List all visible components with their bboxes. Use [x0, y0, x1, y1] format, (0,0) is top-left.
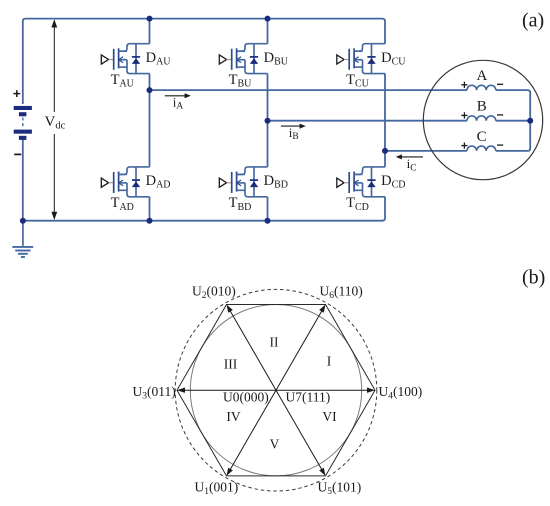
node phase A output	[147, 87, 153, 93]
svg-text:(a): (a)	[522, 10, 544, 32]
svg-text:U1(001): U1(001)	[195, 480, 239, 497]
node ground junction	[20, 218, 26, 224]
node top bus leg B	[265, 16, 271, 22]
label minus A	[497, 83, 503, 85]
wire leg A upper	[149, 19, 151, 44]
space vector inner circle	[190, 305, 361, 476]
wire leg A lower	[149, 197, 151, 221]
vector U3	[177, 388, 276, 393]
svg-text:VI: VI	[322, 409, 337, 424]
wire bottom DC bus	[23, 139, 385, 221]
svg-text:IV: IV	[226, 409, 240, 424]
label battery plus	[13, 90, 20, 97]
transistor T_AD	[101, 167, 149, 197]
diode D_CD	[367, 167, 375, 197]
inductor phase C	[467, 146, 496, 151]
wire top DC bus	[23, 19, 385, 104]
wire phase B to neutral	[496, 120, 530, 122]
label plus B	[461, 112, 467, 118]
node phase B output	[265, 118, 271, 124]
svg-text:A: A	[477, 68, 488, 84]
svg-text:U4(100): U4(100)	[379, 384, 423, 401]
svg-text:U2(010): U2(010)	[192, 284, 236, 301]
svg-text:C: C	[477, 129, 487, 145]
current arrow iA	[165, 93, 191, 98]
svg-text:V: V	[270, 437, 280, 452]
svg-text:(b): (b)	[522, 267, 545, 289]
battery V source	[14, 106, 32, 140]
diode D_AD	[132, 167, 140, 197]
svg-text:U5(101): U5(101)	[318, 480, 362, 497]
svg-text:U6(110): U6(110)	[320, 284, 363, 301]
svg-text:III: III	[224, 357, 238, 372]
node top bus leg A	[147, 16, 153, 22]
inductor phase A	[467, 85, 496, 90]
svg-text:U0(000): U0(000)	[223, 390, 269, 405]
space vector outer dashed circle	[175, 289, 377, 491]
wire leg C middle	[384, 74, 386, 167]
wire leg A middle	[149, 74, 151, 167]
node bottom bus leg A	[147, 218, 153, 224]
label plus C	[461, 143, 467, 149]
space vector hexagon	[177, 305, 375, 476]
svg-text:U3(011): U3(011)	[133, 384, 176, 401]
svg-text:B: B	[477, 99, 487, 115]
motor circle	[423, 60, 542, 179]
wire leg B lower	[267, 197, 269, 221]
vector U2	[227, 305, 277, 391]
label minus C	[497, 144, 503, 146]
label plus A	[461, 82, 467, 88]
svg-text:II: II	[270, 335, 279, 350]
vector U5	[276, 390, 326, 476]
svg-text:U7(111): U7(111)	[286, 390, 331, 405]
transistor T_BD	[219, 167, 267, 197]
wire phase C line	[385, 150, 467, 152]
svg-text:I: I	[327, 354, 332, 369]
wire leg B upper	[267, 19, 269, 44]
current arrow iC	[396, 154, 423, 159]
label battery minus	[14, 153, 21, 155]
transistor T_CU	[337, 44, 385, 74]
node phase C output	[382, 148, 388, 154]
vector U4	[276, 388, 375, 393]
wire phase A to neutral	[496, 90, 530, 118]
vector U1	[227, 390, 277, 476]
transistor T_BU	[219, 44, 267, 74]
current arrow iB	[281, 124, 306, 129]
transistor T_AU	[101, 44, 149, 74]
diode D_CU	[367, 44, 375, 74]
node motor neutral	[527, 118, 533, 124]
node bottom bus leg B	[265, 218, 271, 224]
wire phase B line	[268, 120, 468, 122]
wire phase A line	[150, 89, 468, 91]
wire leg B middle	[267, 74, 269, 167]
vector U6	[276, 305, 326, 391]
diode D_BU	[250, 44, 258, 74]
diode D_BD	[250, 167, 258, 197]
ground	[12, 221, 33, 257]
transistor T_CD	[337, 167, 385, 197]
Vdc dimension arrows	[51, 19, 57, 220]
label minus B	[497, 114, 503, 116]
inductor phase B	[467, 116, 496, 121]
wire phase C to neutral	[496, 123, 530, 151]
diode D_AU	[132, 44, 140, 74]
